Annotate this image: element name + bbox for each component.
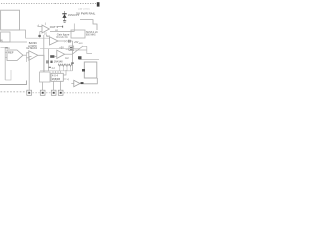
svg-text:(2): (2) xyxy=(64,39,67,43)
svg-text:1N4148: 1N4148 xyxy=(54,60,63,63)
svg-text:IN: IN xyxy=(0,40,3,43)
svg-text:addr sel bits: addr sel bits xyxy=(78,7,91,10)
svg-text:-48V: -48V xyxy=(78,43,83,45)
svg-text:5V PWR RAIL: 5V PWR RAIL xyxy=(76,12,95,16)
svg-text:M(8)4B: M(8)4B xyxy=(52,78,61,81)
svg-text:800 MHS: 800 MHS xyxy=(86,35,96,37)
svg-text:R=2.2k 1%: R=2.2k 1% xyxy=(56,37,67,39)
svg-text:REF: REF xyxy=(8,50,14,54)
svg-text:U2 MAX4: U2 MAX4 xyxy=(26,47,37,50)
svg-text:Gain figure: Gain figure xyxy=(57,32,70,36)
